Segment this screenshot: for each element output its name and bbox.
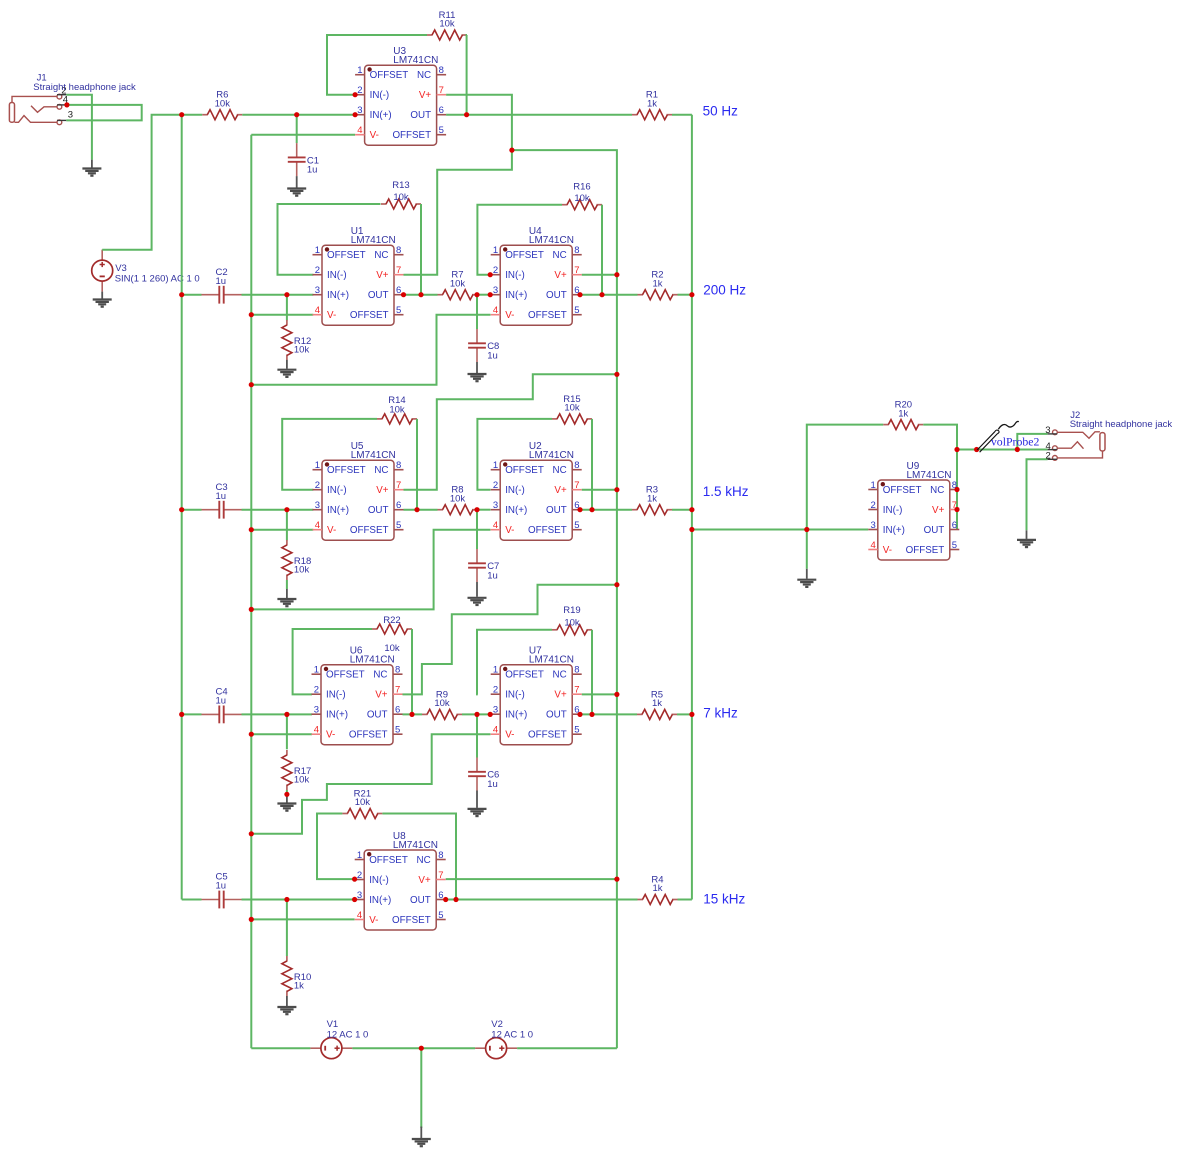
svg-text:OFFSET: OFFSET: [350, 310, 389, 321]
svg-text:Straight headphone jack: Straight headphone jack: [33, 82, 136, 93]
node junction: [614, 372, 619, 377]
wire R8 to U2 IN+: [478, 509, 491, 511]
svg-text:R16: R16: [573, 181, 590, 192]
resistor R5: [637, 689, 677, 719]
ground: [287, 176, 306, 196]
svg-text:4: 4: [493, 725, 498, 736]
svg-text:OFFSET: OFFSET: [370, 70, 409, 81]
node junction: [474, 292, 479, 297]
svg-text:10k: 10k: [294, 775, 310, 786]
node junction: [589, 712, 594, 717]
op-amp U3: [355, 46, 446, 145]
svg-text:1u: 1u: [307, 165, 318, 176]
ground: [468, 582, 487, 605]
wire R17 to ground: [286, 790, 288, 794]
svg-text:8: 8: [574, 460, 579, 471]
AC source V1: [310, 1019, 368, 1059]
svg-text:OUT: OUT: [368, 290, 389, 301]
wire R5 to 7kHz node: [677, 713, 692, 715]
node junction: [401, 292, 406, 297]
wire summing node to U9 IN+: [692, 529, 868, 531]
wire C8 riser: [476, 295, 478, 329]
wire C6 riser: [476, 714, 478, 757]
node junction: [954, 447, 959, 452]
svg-text:NC: NC: [417, 70, 431, 81]
svg-text:3: 3: [315, 500, 320, 511]
wire U3 OUT to R1: [446, 114, 632, 116]
svg-text:LM741CN: LM741CN: [351, 235, 396, 246]
svg-text:4: 4: [314, 725, 319, 736]
resistor R20: [883, 400, 923, 430]
node junction: [689, 292, 694, 297]
node junction: [179, 292, 184, 297]
op-amp U7: [491, 646, 582, 745]
svg-text:5: 5: [574, 305, 579, 316]
svg-text:V-: V-: [370, 130, 379, 141]
svg-text:NC: NC: [553, 250, 567, 261]
wire V2 to V+ bus: [517, 1047, 617, 1049]
resistor R15: [552, 394, 592, 424]
connector J2 straight headphone jack: [1045, 410, 1172, 462]
svg-text:8: 8: [574, 245, 579, 256]
ground: [468, 791, 487, 817]
wire R17 riser: [286, 714, 288, 749]
resistor R4: [638, 875, 678, 905]
svg-text:6: 6: [439, 105, 444, 116]
svg-text:6: 6: [395, 705, 400, 716]
svg-text:OFFSET: OFFSET: [392, 915, 431, 926]
svg-text:2: 2: [493, 265, 498, 276]
op-amp U6: [312, 646, 403, 745]
node junction: [284, 792, 289, 797]
wire U9 IN+ ground leg: [806, 530, 808, 569]
svg-text:10k: 10k: [564, 403, 580, 414]
svg-text:OFFSET: OFFSET: [327, 465, 366, 476]
svg-text:10k: 10k: [574, 193, 590, 204]
svg-text:1: 1: [357, 65, 362, 76]
svg-text:LM741CN: LM741CN: [529, 450, 574, 461]
svg-text:V-: V-: [505, 310, 514, 321]
node junction: [488, 292, 493, 297]
node junction: [249, 917, 254, 922]
svg-text:10k: 10k: [393, 192, 409, 203]
resistor R6: [202, 90, 242, 120]
wire U3 V+ riser: [446, 95, 512, 150]
svg-text:3: 3: [493, 705, 498, 716]
wire R18 to ground: [286, 580, 288, 589]
node junction: [352, 877, 357, 882]
node junction: [689, 527, 694, 532]
node junction: [284, 712, 289, 717]
svg-text:2: 2: [314, 685, 319, 696]
svg-text:IN(-): IN(-): [327, 270, 347, 281]
svg-text:1k: 1k: [294, 981, 304, 992]
svg-text:SIN(1 1 260) AC 1 0: SIN(1 1 260) AC 1 0: [115, 274, 200, 285]
svg-text:NC: NC: [553, 670, 567, 681]
svg-text:10k: 10k: [450, 278, 466, 289]
svg-text:LM741CN: LM741CN: [529, 655, 574, 666]
svg-text:R22: R22: [383, 615, 400, 626]
node junction: [249, 527, 254, 532]
svg-text:NC: NC: [374, 250, 388, 261]
wire C3 to U5 IN+: [242, 509, 314, 511]
svg-text:IN(+): IN(+): [327, 505, 349, 516]
resistor R18: [282, 540, 311, 580]
wire output to J2 pin4: [957, 449, 1048, 451]
wire R1 to 50Hz node: [672, 114, 692, 116]
resistor R9: [422, 689, 462, 719]
wire U8 OUT to R4: [446, 899, 638, 901]
wire R16 to U4 OUT: [601, 205, 603, 295]
node junction: [249, 732, 254, 737]
resistor R12: [282, 320, 311, 360]
resistor R3: [632, 485, 672, 515]
node junction: [284, 292, 289, 297]
svg-text:8: 8: [438, 850, 443, 861]
svg-text:1u: 1u: [487, 779, 498, 790]
wire input bus to C2: [182, 294, 202, 296]
node junction: [352, 897, 357, 902]
svg-text:OUT: OUT: [410, 110, 431, 121]
svg-text:3: 3: [493, 285, 498, 296]
svg-text:2: 2: [357, 870, 362, 881]
wire J1 pin2 to ground: [66, 95, 92, 160]
capacitor C1: [288, 143, 319, 176]
wire J2 pin2 to ground: [1027, 459, 1048, 530]
node junction: [453, 897, 458, 902]
svg-text:8: 8: [574, 665, 579, 676]
svg-text:4: 4: [493, 520, 498, 531]
svg-text:V+: V+: [932, 505, 945, 516]
resistor R1: [632, 90, 672, 120]
svg-text:V+: V+: [376, 485, 389, 496]
node junction: [577, 712, 582, 717]
svg-text:R19: R19: [563, 605, 580, 616]
wire R15 to U2 OUT: [591, 419, 593, 510]
svg-text:12 AC 1 0: 12 AC 1 0: [327, 1029, 369, 1040]
svg-text:1u: 1u: [216, 881, 227, 892]
wire input bus to C4: [182, 713, 202, 715]
op-amp U5: [313, 441, 404, 540]
svg-text:OUT: OUT: [924, 525, 945, 536]
svg-text:LM741CN: LM741CN: [350, 655, 395, 666]
op-amp U4: [491, 226, 582, 325]
resistor R11: [427, 10, 467, 40]
node junction: [474, 712, 479, 717]
wire U3 V- to bus: [251, 134, 355, 136]
wire U8 IN- to R21: [317, 814, 355, 880]
node junction: [589, 507, 594, 512]
svg-text:3: 3: [68, 110, 73, 121]
svg-text:10k: 10k: [294, 345, 310, 356]
node junction: [614, 487, 619, 492]
svg-text:OUT: OUT: [546, 290, 567, 301]
node junction: [614, 272, 619, 277]
svg-text:10k: 10k: [439, 19, 455, 30]
svg-text:LM741CN: LM741CN: [351, 450, 396, 461]
svg-text:7: 7: [396, 480, 401, 491]
wire V3 to input node: [102, 115, 182, 250]
resistor R10: [282, 956, 311, 996]
svg-text:5: 5: [952, 540, 957, 551]
wire node to R20: [807, 425, 884, 530]
wire input bus to C3: [182, 509, 202, 511]
svg-text:8: 8: [396, 245, 401, 256]
svg-text:3: 3: [314, 705, 319, 716]
svg-text:IN(-): IN(-): [370, 90, 390, 101]
svg-text:2: 2: [1046, 451, 1051, 462]
svg-text:V-: V-: [505, 525, 514, 536]
svg-text:7: 7: [574, 480, 579, 491]
resistor R2: [638, 270, 678, 300]
svg-text:NC: NC: [374, 465, 388, 476]
resistor R8: [438, 485, 478, 515]
wire supply to U1 V+: [404, 150, 512, 275]
svg-text:1k: 1k: [652, 278, 662, 289]
node junction: [249, 831, 254, 836]
node supply center: [419, 1046, 424, 1051]
wire U1 OUT to R7: [404, 294, 438, 296]
wire V1 to V2: [352, 1047, 475, 1049]
wire U3 IN- to R11: [327, 35, 427, 95]
svg-text:4: 4: [493, 305, 498, 316]
svg-text:2: 2: [357, 85, 362, 96]
capacitor C6: [468, 758, 499, 791]
node junction: [488, 272, 493, 277]
probe volProbe2: [977, 421, 1039, 452]
svg-text:LM741CN: LM741CN: [393, 55, 438, 66]
ground: [1017, 530, 1036, 547]
wire U8 V-: [251, 918, 354, 920]
node junction: [474, 507, 479, 512]
svg-text:1: 1: [493, 245, 498, 256]
node junction: [804, 527, 809, 532]
svg-text:OFFSET: OFFSET: [326, 670, 365, 681]
svg-text:1: 1: [315, 245, 320, 256]
ground: [277, 996, 296, 1014]
wire R19 to U7 OUT: [591, 630, 593, 715]
svg-text:8: 8: [439, 65, 444, 76]
svg-text:1k: 1k: [652, 883, 662, 894]
wire U5 V-: [251, 529, 313, 531]
svg-text:1: 1: [493, 460, 498, 471]
svg-text:OFFSET: OFFSET: [528, 730, 567, 741]
svg-text:IN(-): IN(-): [327, 485, 347, 496]
svg-text:OUT: OUT: [367, 710, 388, 721]
node junction: [954, 487, 959, 492]
svg-text:V-: V-: [327, 525, 336, 536]
wire supply to U5 V+: [404, 374, 617, 489]
svg-text:NC: NC: [417, 855, 431, 866]
wire supply to U6 V+: [403, 585, 617, 695]
AC source V3: [92, 250, 200, 292]
svg-text:IN(+): IN(+): [327, 290, 349, 301]
wire center tap to ground: [420, 1048, 422, 1128]
wire input bus: [181, 115, 183, 900]
wire C1 riser: [296, 115, 298, 143]
svg-text:3: 3: [871, 520, 876, 531]
wire summing bus: [691, 115, 693, 900]
node junction: [599, 292, 604, 297]
svg-text:10k: 10k: [564, 618, 580, 629]
ground: [277, 360, 296, 377]
wire U4 IN- to R16: [477, 205, 562, 275]
svg-text:1: 1: [357, 850, 362, 861]
svg-text:IN(+): IN(+): [505, 505, 527, 516]
svg-text:IN(-): IN(-): [326, 690, 346, 701]
node junction: [353, 112, 358, 117]
svg-text:3: 3: [315, 285, 320, 296]
svg-text:3: 3: [1045, 425, 1050, 436]
resistor R13: [381, 180, 421, 209]
wire U4 OUT to R2: [582, 294, 638, 296]
svg-text:12 AC 1 0: 12 AC 1 0: [491, 1029, 533, 1040]
svg-text:10k: 10k: [294, 565, 310, 576]
svg-text:7: 7: [574, 265, 579, 276]
wire U7 V- path: [251, 734, 490, 834]
node junction: [249, 312, 254, 317]
svg-text:1u: 1u: [216, 696, 227, 707]
node junction: [488, 712, 493, 717]
resistor R21: [342, 789, 382, 819]
svg-text:10k: 10k: [389, 405, 405, 416]
svg-text:IN(+): IN(+): [883, 525, 905, 536]
wire U6 V-: [251, 733, 312, 735]
svg-text:1u: 1u: [216, 276, 227, 287]
svg-text:7: 7: [396, 265, 401, 276]
svg-text:1k: 1k: [652, 698, 662, 709]
svg-text:V-: V-: [505, 730, 514, 741]
capacitor C8: [468, 329, 499, 362]
wire R3 to 1.5kHz node: [672, 509, 692, 511]
node junction: [414, 507, 419, 512]
wire U6 OUT to R9: [403, 713, 423, 715]
wire V- bus: [250, 135, 252, 1048]
wire U2 OUT to R3: [582, 509, 632, 511]
node junction: [509, 148, 514, 153]
wire input bus to C5: [182, 899, 202, 901]
wire U1 IN- to R13: [278, 204, 381, 275]
node junction: [418, 292, 423, 297]
svg-text:1k: 1k: [647, 98, 657, 109]
node junction: [443, 897, 448, 902]
svg-text:IN(-): IN(-): [883, 505, 903, 516]
capacitor C4: [202, 687, 242, 724]
svg-text:6: 6: [952, 520, 957, 531]
wire U2 IN- to R15: [477, 419, 552, 490]
wire U7 OUT to R5: [582, 713, 637, 715]
resistor R19: [552, 605, 592, 635]
wire R6 to U3 IN+: [242, 114, 355, 116]
svg-text:NC: NC: [373, 670, 387, 681]
svg-text:IN(-): IN(-): [505, 690, 525, 701]
svg-text:OFFSET: OFFSET: [505, 465, 544, 476]
node junction: [1015, 447, 1020, 452]
svg-text:7: 7: [439, 85, 444, 96]
wire U7 V+ tap: [582, 693, 617, 695]
svg-text:V+: V+: [418, 875, 431, 886]
wire R4 to 15kHz node: [678, 899, 692, 901]
svg-text:OUT: OUT: [546, 710, 567, 721]
wire U2 V+ tap: [582, 489, 617, 491]
svg-text:IN(-): IN(-): [505, 270, 525, 281]
ground: [82, 160, 101, 176]
node junction: [284, 507, 289, 512]
wire R11 to U3 OUT: [466, 35, 468, 115]
svg-text:1k: 1k: [647, 493, 657, 504]
op-amp U1: [313, 226, 404, 325]
svg-text:3: 3: [357, 890, 362, 901]
op-amp U2: [491, 441, 582, 540]
node junction: [689, 507, 694, 512]
svg-text:6: 6: [396, 285, 401, 296]
wire U5 IN- to R14: [282, 419, 377, 490]
node probe attach: [974, 447, 979, 452]
resistor R14: [377, 395, 417, 424]
node junction: [179, 507, 184, 512]
resistor R16: [562, 181, 602, 209]
svg-text:IN(-): IN(-): [505, 485, 525, 496]
svg-text:7: 7: [574, 685, 579, 696]
svg-text:OFFSET: OFFSET: [327, 250, 366, 261]
svg-text:OFFSET: OFFSET: [528, 310, 567, 321]
node junction: [954, 507, 959, 512]
svg-text:4: 4: [315, 305, 320, 316]
connector J1 straight headphone jack: [9, 72, 136, 124]
wire U1 V-: [251, 314, 313, 316]
wire J1 pin4 to pin3: [66, 105, 141, 121]
svg-text:6: 6: [396, 500, 401, 511]
svg-text:V+: V+: [375, 690, 388, 701]
node input: [179, 112, 184, 117]
wire R14 to U5 OUT: [416, 419, 418, 510]
svg-text:OUT: OUT: [410, 895, 431, 906]
svg-text:8: 8: [396, 460, 401, 471]
wire R20 to U9 OUT: [923, 425, 957, 530]
svg-text:2: 2: [871, 500, 876, 511]
svg-text:10k: 10k: [450, 493, 466, 504]
svg-text:2: 2: [315, 265, 320, 276]
svg-text:V-: V-: [327, 310, 336, 321]
svg-text:10k: 10k: [215, 98, 231, 109]
wire U4 V+ tap: [582, 274, 617, 276]
svg-text:2: 2: [493, 480, 498, 491]
svg-text:50 Hz: 50 Hz: [703, 104, 739, 119]
ground: [93, 292, 112, 307]
svg-text:IN(+): IN(+): [505, 710, 527, 721]
svg-text:IN(+): IN(+): [369, 895, 391, 906]
wire R10 riser: [286, 900, 288, 957]
svg-text:LM741CN: LM741CN: [393, 840, 438, 851]
node junction: [689, 712, 694, 717]
svg-text:1: 1: [493, 665, 498, 676]
svg-text:200 Hz: 200 Hz: [703, 283, 746, 298]
svg-text:V+: V+: [419, 90, 432, 101]
ground: [468, 362, 487, 381]
wire R21 to U8 OUT: [382, 814, 456, 900]
wire U8 V+ tap: [446, 878, 617, 880]
svg-text:7: 7: [395, 685, 400, 696]
wire C5 to U8 IN+: [242, 899, 355, 901]
wire R2 to 200Hz node: [678, 294, 692, 296]
svg-text:5: 5: [438, 910, 443, 921]
wire U2 V- path: [251, 530, 490, 610]
svg-text:4: 4: [871, 540, 876, 551]
svg-text:5: 5: [574, 520, 579, 531]
node junction: [353, 92, 358, 97]
svg-text:5: 5: [439, 125, 444, 136]
capacitor C7: [468, 549, 499, 582]
